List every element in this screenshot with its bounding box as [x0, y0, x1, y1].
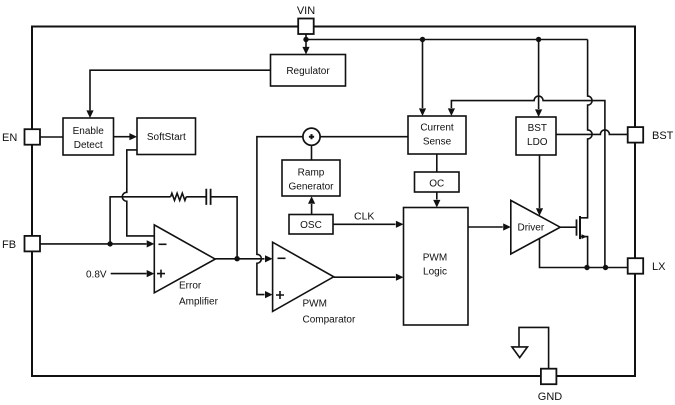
block SoftStart [137, 118, 196, 155]
pin FB [25, 236, 41, 252]
node CSfb-LX junction [603, 265, 608, 270]
wire VIN bus to Current Sense [422, 40, 424, 109]
op-amp error amplifier [154, 225, 215, 293]
pin GND [541, 369, 557, 385]
node bus-BSTLDO junction [536, 37, 541, 42]
svg-text:CLK: CLK [354, 211, 374, 223]
pin BST [628, 127, 644, 143]
wire Current Sense to OC [436, 154, 438, 172]
block OSC [289, 215, 333, 235]
svg-text:BST: BST [652, 130, 674, 142]
wire summing node to PWM comparator plus (with hop) [257, 137, 303, 295]
node comp-FB junction [107, 241, 112, 246]
block Enable Detect [63, 118, 114, 155]
svg-text:Comparator: Comparator [303, 315, 356, 326]
ground symbol [519, 327, 549, 368]
wire BST LDO to Driver [539, 155, 541, 208]
svg-text:Logic: Logic [423, 267, 447, 278]
pin EN [25, 129, 41, 145]
svg-text:Ramp: Ramp [298, 168, 325, 179]
svg-text:SoftStart: SoftStart [147, 132, 186, 143]
svg-text:LDO: LDO [527, 137, 548, 148]
svg-text:Detect: Detect [74, 140, 103, 151]
svg-text:Regulator: Regulator [286, 66, 330, 77]
wire error amp output to PWM comparator minus [215, 258, 264, 260]
wire PWM comparator to PWM Logic [334, 276, 396, 278]
node VIN bus junction [303, 37, 308, 42]
wire compensation network [110, 197, 171, 244]
wire VIN bus to BST LDO [538, 40, 540, 110]
wire C to amp output [211, 197, 238, 259]
wire VIN stub to Regulator [305, 34, 307, 47]
wire LX to Current Sense (with hop) [451, 96, 605, 267]
svg-text:OSC: OSC [300, 220, 322, 231]
op-amp PWM comparator [273, 242, 334, 311]
svg-text:LX: LX [652, 261, 666, 273]
svg-text:PWM: PWM [423, 253, 447, 264]
wire OSC to PWM Logic [333, 223, 396, 225]
wire Driver to MOSFET gate [560, 226, 576, 228]
wire OC to PWM Logic [436, 192, 438, 200]
wire SoftStart to error amplifier (with hop) [122, 150, 154, 236]
pin LX [628, 258, 644, 274]
svg-text:BST: BST [528, 123, 547, 134]
block OC [415, 172, 460, 192]
node comp-output junction [234, 256, 239, 261]
transistor MOSFET switch [576, 219, 578, 235]
capacitor compensation C [206, 189, 210, 205]
wire PWM Logic to Driver [468, 226, 503, 228]
node source-LX junction [584, 265, 589, 270]
wire 0.8V to error amplifier plus [111, 273, 147, 275]
svg-text:Amplifier: Amplifier [179, 297, 219, 308]
svg-text:VIN: VIN [297, 5, 315, 17]
svg-text:Sense: Sense [423, 137, 452, 148]
wire Enable Detect to SoftStart [114, 136, 130, 138]
block Current Sense [408, 116, 466, 154]
svg-text:Generator: Generator [288, 182, 334, 193]
block BST LDO [516, 117, 556, 155]
svg-text:Driver: Driver [518, 223, 545, 234]
wire BST LDO to BST pin (with hop) [556, 130, 628, 135]
wire EN pin to Enable Detect [40, 136, 63, 138]
wire VIN bus [306, 39, 588, 41]
wire Regulator to Enable Detect [90, 70, 271, 110]
svg-text:PWM: PWM [303, 299, 327, 310]
block Regulator [271, 55, 346, 87]
wire summing node to Current Sense [320, 136, 408, 138]
summing node circle [303, 128, 320, 145]
wire VIN to MOSFET drain (with hops) [580, 40, 592, 218]
wire summing node to Ramp Generator [311, 145, 313, 160]
node bus-CurrentSense junction [420, 37, 425, 42]
wire FB to error amplifier minus [40, 243, 147, 245]
svg-text:EN: EN [2, 132, 17, 144]
svg-text:Error: Error [179, 281, 202, 292]
pin VIN [298, 19, 314, 35]
op-amp Driver [511, 200, 560, 254]
wire R to C [186, 196, 206, 198]
svg-text:FB: FB [2, 239, 16, 251]
svg-text:0.8V: 0.8V [86, 270, 107, 281]
resistor compensation R [171, 193, 187, 200]
wire OSC to Ramp Generator [311, 204, 313, 215]
IC boundary box [32, 27, 635, 377]
svg-text:GND: GND [538, 391, 563, 403]
svg-text:Current: Current [420, 123, 454, 134]
block Ramp Generator [282, 160, 340, 196]
svg-text:Enable: Enable [73, 126, 105, 137]
wire Driver return and LX line [540, 238, 628, 267]
svg-text:OC: OC [429, 178, 444, 189]
wire MOSFET source to LX [580, 237, 588, 268]
block PWM Logic [404, 208, 469, 326]
